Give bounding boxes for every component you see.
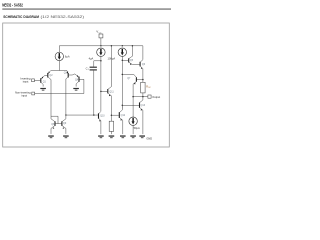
transistor Q13 <box>140 97 146 135</box>
ground Q10 <box>98 135 104 138</box>
node Q9 collector tap <box>65 114 66 115</box>
wire VCC rail <box>59 46 143 60</box>
svg-text:4µA: 4µA <box>89 57 94 61</box>
ground 50uA <box>130 135 136 138</box>
transistor Q10 <box>99 111 106 134</box>
wire output node <box>133 96 148 98</box>
wire emitter rail <box>51 70 67 72</box>
pin non-inverting input <box>15 90 84 97</box>
svg-text:Output: Output <box>152 95 160 99</box>
pin output <box>148 95 160 99</box>
transistor Q1 <box>41 75 48 86</box>
ground R2 <box>109 135 115 138</box>
transistor Q6 <box>140 60 146 80</box>
node rail-Q5 <box>132 45 134 47</box>
node rail-100uA <box>122 45 124 47</box>
svg-text:1: 1 <box>88 69 89 71</box>
ground Q8 <box>48 135 54 138</box>
current source I2 4uA <box>89 48 106 111</box>
transistor Q2 <box>48 71 53 119</box>
svg-text:input: input <box>23 80 29 84</box>
current source I1 6uA <box>55 52 70 70</box>
transistor Q3 <box>64 71 73 119</box>
node rail-4uA <box>100 45 102 47</box>
svg-text:50µA: 50µA <box>134 126 140 130</box>
wire mirror to Q10 base <box>66 114 98 116</box>
ground Q1 <box>40 88 46 91</box>
node rail-Q11 <box>111 45 113 47</box>
header rule <box>2 8 171 11</box>
node output-Rsc <box>142 96 144 98</box>
pin VCC <box>96 30 103 46</box>
ground Q9 <box>63 135 69 138</box>
ground Q4 <box>73 88 79 91</box>
wire Q12 to Q13 base <box>122 104 139 106</box>
svg-text:GND: GND <box>146 136 152 140</box>
node Q11 emitter R2 <box>111 115 113 117</box>
svg-text:(1/2 NE532-SA532): (1/2 NE532-SA532) <box>41 15 85 19</box>
transistor Q5 <box>122 46 140 65</box>
svg-text:Q13: Q13 <box>141 104 146 107</box>
svg-text:Q10: Q10 <box>100 115 105 118</box>
resistor R2 <box>109 115 113 134</box>
schematic frame <box>3 23 170 147</box>
capacitor C1 <box>86 60 102 115</box>
ground Q12 <box>120 135 126 138</box>
ground Q13 <box>139 135 145 138</box>
transistor Q9 <box>62 119 67 134</box>
transistor Q8 <box>51 116 62 134</box>
node 4uA Q11 base <box>100 91 102 93</box>
current source I4 50uA <box>129 117 140 134</box>
svg-text:SCHEMATIC DIAGRAM: SCHEMATIC DIAGRAM <box>3 15 39 19</box>
node Q12 collector <box>122 105 124 107</box>
transistor Q4 <box>72 74 84 94</box>
resistor RSC <box>141 80 152 97</box>
transistor Q11 <box>101 46 115 116</box>
current source I3 100uA <box>108 48 127 109</box>
node C1 bottom <box>93 114 95 116</box>
transistor Q7 <box>122 74 143 117</box>
svg-text:NE532 - SA532: NE532 - SA532 <box>2 3 23 8</box>
node output-50uA <box>132 96 134 98</box>
svg-text:Q12: Q12 <box>121 114 126 117</box>
svg-text:6µA: 6µA <box>65 54 70 58</box>
node Q6 emitter Rsc <box>142 79 144 81</box>
svg-text:input: input <box>21 93 27 97</box>
pin inverting input <box>20 77 40 84</box>
transistor Q12 <box>111 105 125 134</box>
svg-text:Q11: Q11 <box>109 90 114 93</box>
